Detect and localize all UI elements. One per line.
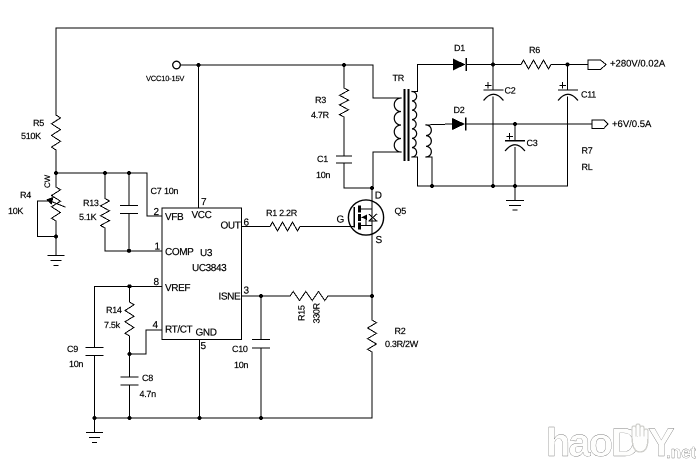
svg-text:R15: R15	[297, 305, 307, 321]
capacitor C8 4.7n	[121, 354, 156, 418]
node C3 rail junction	[513, 184, 517, 188]
node C7 top junction	[127, 171, 131, 175]
svg-text:C9: C9	[67, 344, 78, 354]
potentiometer R4 10K	[8, 173, 65, 237]
svg-text:COMP: COMP	[165, 247, 194, 258]
transistor Q5 MOSFET	[337, 191, 407, 247]
wire drain-source vertical through Q5	[371, 188, 373, 296]
svg-text:C7: C7	[151, 186, 162, 196]
node divider junction A	[54, 171, 58, 175]
node source junction S	[370, 294, 374, 298]
wire secondary2 bottom lead	[426, 157, 432, 186]
svg-text:330R: 330R	[312, 302, 322, 323]
capacitor C11 electrolytic	[559, 65, 597, 187]
svg-text:.net: .net	[666, 443, 696, 462]
wire primary bottom to drain node	[373, 152, 401, 188]
node C9 rail junction	[93, 416, 97, 420]
wire primary ground rail	[95, 417, 373, 419]
node R3 top junction	[342, 63, 346, 67]
svg-text:4: 4	[153, 320, 159, 331]
wire secondary ground rail	[418, 185, 568, 187]
node R13 top junction	[103, 171, 107, 175]
svg-text:GND: GND	[196, 328, 217, 339]
svg-text:U3: U3	[200, 248, 213, 259]
node +280V raw junction	[491, 63, 495, 67]
resistor R13 5.1K	[79, 173, 110, 251]
wire R4 wiper to bottom terminal	[38, 201, 57, 237]
svg-text:VFB: VFB	[165, 212, 184, 223]
wire VCC rail	[180, 65, 373, 98]
svg-text:10K: 10K	[8, 206, 23, 216]
svg-text:R14: R14	[106, 305, 122, 315]
svg-text:C10: C10	[232, 344, 248, 354]
op-amp U3 UC3843 box	[162, 208, 242, 340]
node GND pin rail junction	[198, 416, 202, 420]
svg-text:G: G	[337, 215, 345, 226]
svg-text:R2: R2	[395, 326, 406, 336]
svg-text:RL: RL	[582, 162, 593, 172]
svg-text:10n: 10n	[69, 359, 83, 369]
svg-text:haoD: haoD	[546, 421, 639, 465]
capacitor C2 electrolytic	[484, 65, 516, 187]
capacitor C1 10n	[316, 154, 352, 188]
wire C1 bottom to drain node	[344, 187, 372, 189]
node C3 top junction	[513, 122, 517, 126]
svg-text:10n: 10n	[316, 170, 330, 180]
wire secondary1 top lead to D1	[412, 65, 453, 92]
svg-text:R5: R5	[33, 118, 44, 128]
node VCC pin branch	[197, 63, 201, 67]
svg-text:C8: C8	[142, 373, 153, 383]
node C10 rail junction	[259, 416, 263, 420]
node C8 rail junction	[128, 416, 132, 420]
wire ISNE pin 3 net	[242, 295, 291, 297]
wire divider node to VFB branch	[56, 173, 162, 216]
svg-text:VREF: VREF	[165, 283, 190, 294]
capacitor C10 10n	[232, 296, 270, 418]
wire feedback top rail from R5 top to +280V node	[56, 28, 493, 65]
wire GND pin 5 drop	[199, 340, 201, 419]
node C10 top junction	[259, 294, 263, 298]
transformer TR	[393, 73, 432, 160]
node C2 rail junction	[491, 184, 495, 188]
node R14 top junction	[128, 284, 132, 288]
svg-text:VCC: VCC	[192, 210, 212, 221]
svg-text:10n: 10n	[234, 360, 248, 370]
svg-text:0.3R/2W: 0.3R/2W	[385, 339, 419, 349]
terminal +280V/0.02A	[568, 59, 666, 70]
ground primary rail	[87, 418, 103, 443]
svg-text:7: 7	[201, 197, 207, 208]
svg-text:4.7R: 4.7R	[311, 110, 330, 120]
svg-text:1: 1	[155, 242, 161, 253]
svg-text:D: D	[375, 191, 382, 202]
svg-text:UC3843: UC3843	[192, 263, 227, 274]
wire OUT pin 6 to R1	[242, 226, 271, 228]
wire secondary2 top lead to D2	[426, 123, 452, 126]
terminal +6V/0.5A	[592, 119, 652, 130]
svg-text:R4: R4	[20, 190, 31, 200]
node secondary2 rail junction	[430, 184, 434, 188]
svg-text:S: S	[376, 235, 383, 246]
resistor R3 4.7R	[311, 65, 349, 156]
ground secondary rail	[507, 186, 524, 210]
svg-text:510K: 510K	[21, 131, 41, 141]
capacitor C7 10n	[121, 173, 179, 251]
svg-text:VCC10-15V: VCC10-15V	[146, 74, 184, 83]
wire VCC pin 7 drop	[198, 65, 200, 208]
svg-text:C2: C2	[505, 86, 516, 96]
svg-text:R6: R6	[529, 45, 540, 55]
wire secondary1 bottom lead	[412, 157, 418, 186]
svg-text:R1 2.2R: R1 2.2R	[266, 208, 298, 218]
node +280V out junction	[566, 63, 570, 67]
resistor R14 7.5k	[104, 286, 134, 354]
svg-text:OUT: OUT	[221, 221, 241, 232]
svg-text:RT/CT: RT/CT	[165, 325, 193, 336]
resistor R2 0.3R/2W	[368, 296, 419, 418]
node COMP junction	[127, 249, 131, 253]
svg-text:5: 5	[201, 341, 207, 352]
svg-text:2: 2	[154, 207, 160, 218]
svg-text:ISNE: ISNE	[219, 292, 241, 303]
node R4 bottom junction	[54, 235, 58, 239]
svg-text:C1: C1	[317, 154, 328, 164]
terminal VCC10-15V input	[146, 61, 184, 83]
resistor R5 510K	[21, 28, 61, 173]
resistor R15 330R	[290, 292, 372, 324]
svg-text:R7: R7	[582, 146, 593, 156]
capacitor C9 10n	[67, 344, 103, 418]
capacitor C3 electrolytic	[506, 124, 538, 186]
resistor R1 2.2R	[266, 208, 300, 231]
svg-text:5.1K: 5.1K	[79, 212, 97, 222]
svg-text:R3: R3	[315, 95, 326, 105]
diode D2	[452, 105, 592, 130]
wire R1 to gate	[300, 226, 354, 228]
diode D1	[453, 43, 493, 71]
svg-text:D1: D1	[454, 43, 465, 53]
wire VREF pin 8 net	[95, 286, 163, 347]
wire RT/CT pin 4 net	[130, 330, 163, 354]
svg-text:4.7n: 4.7n	[140, 389, 157, 399]
svg-text:R13: R13	[83, 198, 99, 208]
node drain junction D	[370, 186, 374, 190]
svg-text:3: 3	[244, 286, 250, 297]
svg-text:+280V/0.02A: +280V/0.02A	[610, 59, 666, 70]
svg-text:10n: 10n	[164, 186, 178, 196]
node R14 bottom junction	[128, 352, 132, 356]
resistor R6	[493, 45, 568, 69]
svg-text:+6V/0.5A: +6V/0.5A	[612, 119, 652, 130]
svg-text:CW: CW	[43, 174, 52, 188]
wire primary top lead	[373, 97, 401, 99]
svg-text:C3: C3	[527, 138, 538, 148]
watermark haoDIY.net	[546, 421, 696, 465]
svg-text:7.5k: 7.5k	[104, 320, 121, 330]
svg-text:D2: D2	[454, 105, 465, 115]
svg-text:Q5: Q5	[395, 206, 407, 216]
svg-text:C11: C11	[581, 90, 596, 100]
svg-text:TR: TR	[393, 73, 405, 83]
wire COMP pin net	[105, 250, 162, 252]
ground below R4	[48, 237, 64, 266]
